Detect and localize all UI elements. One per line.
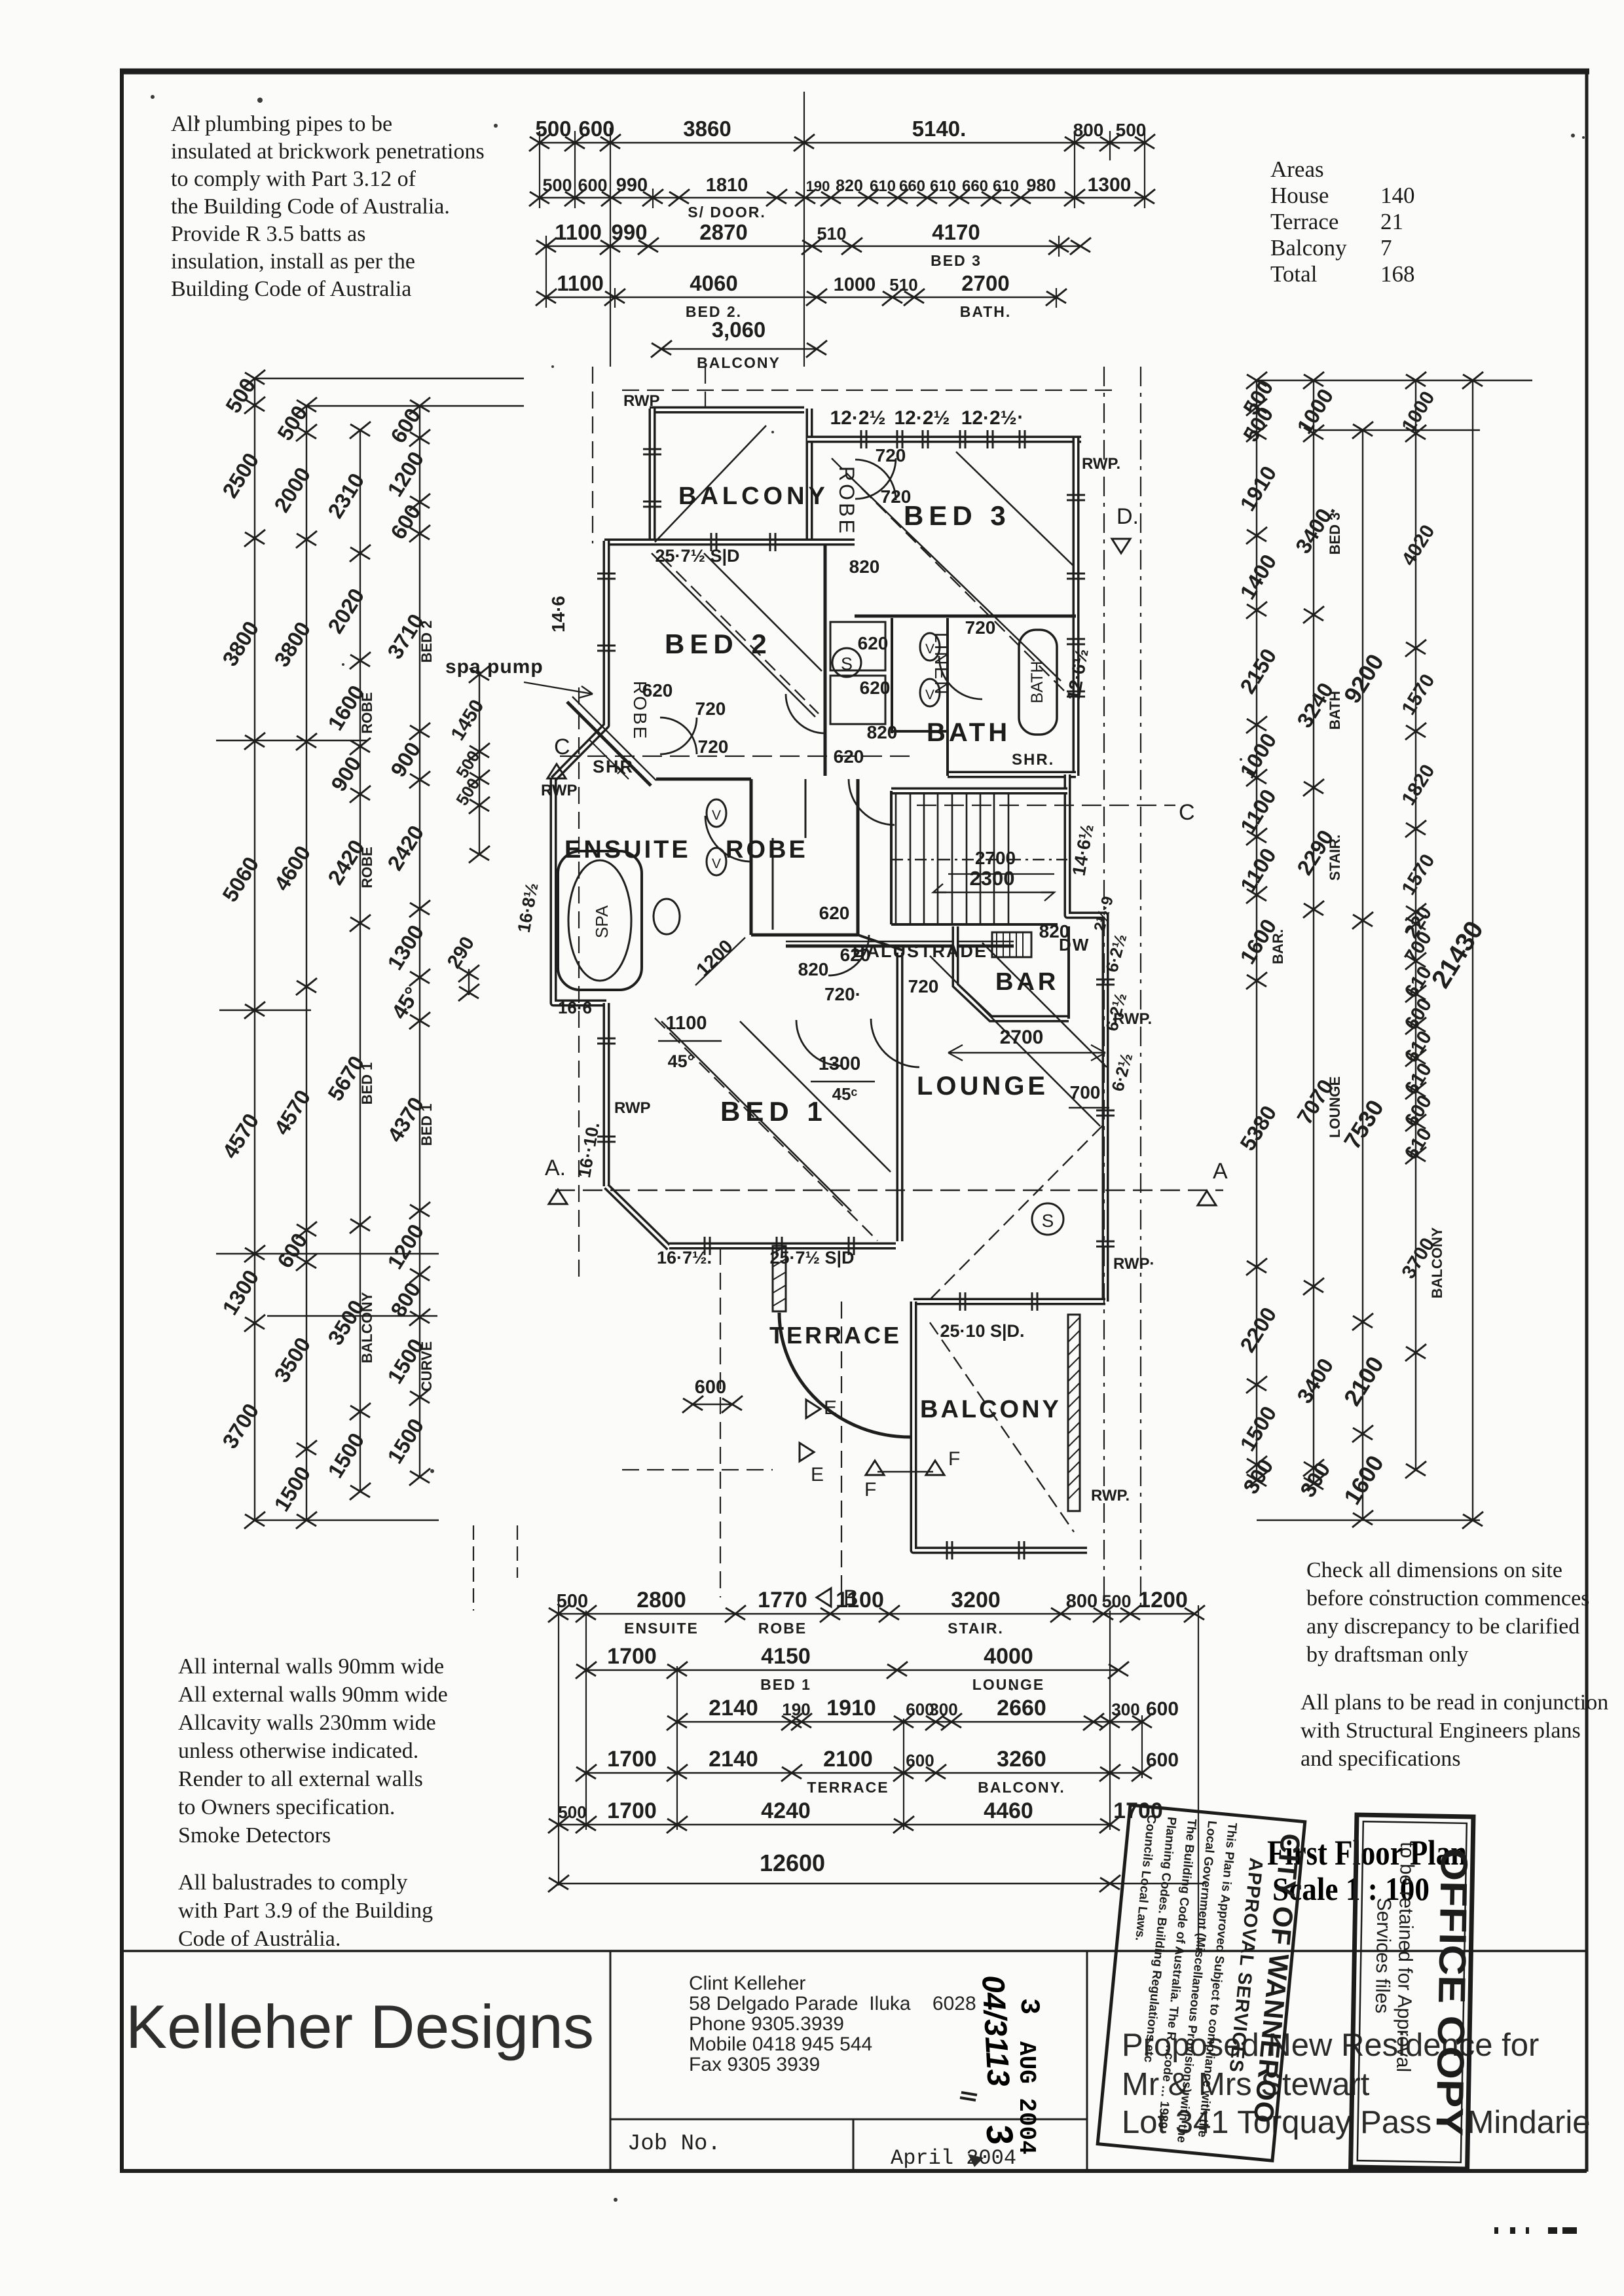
svg-text:2870: 2870 (699, 220, 747, 244)
svg-text:1100: 1100 (666, 1013, 707, 1034)
spa tub ensuite (558, 697, 656, 990)
svg-text:and specifications: and specifications (1301, 1747, 1461, 1771)
svg-text:RWP: RWP (541, 782, 578, 799)
title block (122, 1951, 1587, 2171)
svg-text:to Owners specification.: to Owners specification. (178, 1795, 395, 1819)
svg-text:820: 820 (836, 177, 863, 195)
svg-text:1000: 1000 (1397, 388, 1439, 436)
svg-text:the Building Code of Australia: the Building Code of Australia. (171, 194, 450, 219)
svg-text:BED 2: BED 2 (665, 629, 772, 659)
svg-text:F: F (948, 1448, 960, 1470)
bottom dimension grid (548, 1588, 1205, 1951)
svg-text:BALCONY: BALCONY (359, 1292, 375, 1363)
svg-text:16·6: 16·6 (558, 998, 592, 1017)
svg-text:Kelleher Designs: Kelleher Designs (126, 1992, 594, 2061)
svg-text:Fax 9305 3939: Fax 9305 3939 (689, 2054, 820, 2075)
terrace curve wall (779, 1313, 910, 1437)
svg-text:1400: 1400 (1235, 550, 1281, 604)
note: check dimensions (1301, 1558, 1608, 1771)
dashed connectors to bottom grid (473, 1525, 474, 1611)
svg-text:1300: 1300 (1088, 174, 1132, 196)
svg-text:1770: 1770 (758, 1588, 807, 1613)
svg-text:12600: 12600 (760, 1850, 825, 1876)
svg-text:510: 510 (889, 275, 917, 295)
svg-text:All internal walls 90mm wide: All internal walls 90mm wide (178, 1654, 444, 1679)
bed3 right wall (1073, 438, 1080, 776)
svg-text:Services files: Services files (1371, 1897, 1395, 2013)
svg-text:1300: 1300 (217, 1266, 263, 1319)
svg-text:500: 500 (1116, 120, 1147, 140)
svg-text:2200: 2200 (1235, 1303, 1281, 1357)
svg-text:SPA: SPA (592, 905, 612, 938)
areas table (1270, 156, 1415, 287)
svg-text:2700: 2700 (961, 271, 1009, 295)
svg-text:1500: 1500 (382, 1414, 428, 1468)
svg-text:12·6½: 12·6½ (1063, 647, 1092, 702)
svg-text:500: 500 (542, 175, 572, 195)
svg-text:620: 620 (834, 746, 864, 767)
svg-text:BED 3: BED 3 (931, 252, 982, 269)
svg-text:620: 620 (858, 633, 889, 653)
svg-text:21430: 21430 (1426, 916, 1489, 993)
svg-text:E: E (824, 1397, 837, 1419)
svg-text:4150: 4150 (761, 1644, 811, 1669)
svg-text:3860: 3860 (683, 117, 731, 141)
top grid row balcony 3060 (661, 348, 817, 350)
svg-text:Check all dimensions on site: Check all dimensions on site (1306, 1558, 1562, 1582)
svg-text:April 2004: April 2004 (891, 2146, 1016, 2170)
svg-text:5140.: 5140. (912, 117, 967, 141)
svg-text:1100: 1100 (557, 271, 604, 295)
stair top wall (891, 788, 1067, 795)
bed1 bottom wall (669, 1243, 896, 1250)
bed1 lounge divider wall (896, 953, 904, 1241)
svg-text:3500: 3500 (269, 1333, 315, 1387)
svg-text:300: 300 (1238, 1455, 1278, 1498)
svg-text:A.: A. (545, 1156, 566, 1180)
svg-text:Mobile 0418 945 544: Mobile 0418 945 544 (689, 2033, 872, 2055)
svg-text:All external walls 90mm wide: All external walls 90mm wide (178, 1683, 448, 1707)
svg-text:spa pump: spa pump (445, 656, 544, 678)
svg-text:Balcony: Balcony (1270, 235, 1347, 261)
svg-text:V: V (712, 856, 721, 871)
svg-text:720: 720 (698, 737, 729, 757)
bath bottom wall (948, 771, 1076, 778)
lounge bottom wall (913, 1298, 1105, 1305)
svg-text:BED 3: BED 3 (904, 500, 1011, 531)
svg-text:to comply with Part 3.12 of: to comply with Part 3.12 of (171, 167, 416, 191)
bed2 left wall (603, 541, 610, 687)
svg-text:Smoke Detectors: Smoke Detectors (178, 1823, 331, 1848)
right dimension chains (1235, 372, 1532, 1529)
bed2 left lower + angle to ensuite (553, 687, 606, 779)
staircase treads (891, 793, 1067, 923)
svg-text:2420: 2420 (382, 821, 428, 875)
svg-text:All plumbing pipes to be: All plumbing pipes to be (171, 112, 392, 136)
svg-text:ROBE: ROBE (758, 1620, 807, 1637)
svg-text:500: 500 (557, 1591, 588, 1612)
svg-text:16·8½: 16·8½ (514, 881, 542, 934)
svg-text:Councils Local Laws.: Councils Local Laws. (1132, 1814, 1158, 1941)
svg-text:STAIR.: STAIR. (948, 1620, 1004, 1637)
dashed roof and section lines (555, 367, 1223, 1607)
svg-text:1570: 1570 (1397, 670, 1439, 719)
stamp City of Wanneroo (1098, 1805, 1308, 2161)
svg-text:800: 800 (1073, 120, 1104, 140)
svg-text:6·2½: 6·2½ (1107, 1051, 1136, 1093)
svg-text:820: 820 (867, 722, 898, 742)
svg-text:BED 3: BED 3 (1327, 513, 1343, 555)
svg-text:3700: 3700 (217, 1399, 263, 1453)
svg-text:A: A (1213, 1159, 1228, 1184)
svg-text:4600: 4600 (269, 841, 315, 895)
svg-text:620: 620 (642, 680, 673, 701)
svg-text:600: 600 (578, 117, 614, 141)
top dimension grid (529, 92, 1155, 371)
svg-text:LOUNGE: LOUNGE (917, 1072, 1048, 1101)
svg-text:1700: 1700 (607, 1798, 657, 1823)
RWP labels (541, 392, 1155, 1504)
bar dumbwaiter grill (992, 932, 1031, 957)
note: wall specifications (178, 1654, 448, 1951)
svg-text:3260: 3260 (997, 1747, 1046, 1772)
svg-text:3800: 3800 (269, 617, 315, 671)
svg-text:F: F (864, 1479, 876, 1501)
svg-text:4570: 4570 (269, 1085, 315, 1139)
svg-text:980: 980 (1026, 175, 1056, 195)
svg-text:SHR: SHR (593, 757, 634, 776)
svg-text:Areas: Areas (1270, 156, 1324, 182)
svg-text:ROBE: ROBE (726, 836, 808, 864)
svg-text:Total: Total (1270, 261, 1318, 287)
svg-text:5380: 5380 (1235, 1101, 1281, 1155)
svg-text:RWP: RWP (623, 392, 660, 410)
svg-text:2100: 2100 (1338, 1352, 1389, 1411)
svg-text:500: 500 (1101, 1592, 1131, 1611)
svg-text:BATH.: BATH. (960, 303, 1012, 320)
svg-text:2310: 2310 (323, 469, 369, 522)
svg-text:LOUNGE: LOUNGE (972, 1676, 1044, 1693)
svg-text:BATH: BATH (1327, 691, 1343, 729)
svg-text:BED 1: BED 1 (760, 1676, 811, 1693)
svg-text:SHR.: SHR. (1012, 751, 1054, 769)
svg-text:1500: 1500 (269, 1462, 315, 1516)
svg-text:168: 168 (1380, 261, 1415, 287)
svg-text:S/ DOOR.: S/ DOOR. (688, 204, 766, 221)
svg-text:510: 510 (817, 224, 846, 244)
svg-text:Provide R 3.5 batts as: Provide R 3.5 batts as (171, 222, 365, 246)
shower angled wall ensuite (567, 702, 651, 786)
svg-text:25·10 S|D.: 25·10 S|D. (940, 1321, 1024, 1341)
svg-text:25·7½ S|D: 25·7½ S|D (769, 1248, 854, 1267)
ensuite left wall (553, 779, 606, 1003)
svg-text:2150: 2150 (1235, 644, 1281, 698)
window tick pairs on walls (597, 430, 1115, 1559)
svg-text:600: 600 (906, 1751, 934, 1770)
misc small marks bottom right (1494, 2227, 1577, 2234)
terrace pier hatched (773, 1246, 1080, 1511)
svg-text:Job No.: Job No. (627, 2132, 721, 2157)
svg-text:OFFICE COPY: OFFICE COPY (1428, 1848, 1475, 2136)
svg-text:BALCONY: BALCONY (1429, 1227, 1445, 1298)
svg-text:B: B (843, 1586, 858, 1611)
svg-text:04/3113: 04/3113 (975, 1975, 1016, 2088)
svg-text:BED 1: BED 1 (720, 1096, 828, 1127)
svg-text:1700: 1700 (607, 1747, 657, 1772)
svg-text:RWP.: RWP. (1113, 1010, 1152, 1028)
svg-text:insulation, install as per the: insulation, install as per the (171, 249, 415, 274)
left small chain 1450 (479, 674, 480, 854)
svg-text:4020: 4020 (1397, 521, 1439, 570)
svg-text:720: 720 (695, 699, 726, 719)
svg-text:Terrace: Terrace (1270, 209, 1338, 234)
lounge right wall jog (1067, 774, 1105, 1302)
svg-text:2020: 2020 (323, 584, 369, 638)
bottom 12600 overall (559, 1883, 1205, 1885)
svg-text:12·2½‧: 12·2½‧ (961, 407, 1024, 429)
bath tub (1019, 630, 1057, 735)
svg-text:RWP.: RWP. (1091, 1487, 1130, 1504)
svg-text:3400: 3400 (1292, 1354, 1338, 1408)
svg-text:1100: 1100 (1236, 844, 1281, 896)
svg-text:2700: 2700 (1000, 1027, 1044, 1048)
svg-text:1910: 1910 (1235, 462, 1281, 515)
svg-text:1810: 1810 (706, 175, 748, 196)
stamp Office Copy (1351, 1815, 1476, 2169)
svg-text:720·: 720· (824, 984, 861, 1004)
svg-text:620: 620 (840, 945, 871, 965)
svg-text:Lot 341 Torquay Pass Mindar: Lot 341 Torquay Pass Mindarie (1122, 2105, 1590, 2140)
svg-text:All plans to be read in conjun: All plans to be read in conjunction (1301, 1690, 1608, 1715)
svg-text:2140: 2140 (709, 1696, 758, 1721)
svg-text:BED 2: BED 2 (418, 621, 435, 663)
roof diagonals in rooms (652, 426, 1107, 1532)
svg-text:Building Code of Australia: Building Code of Australia (171, 277, 411, 301)
svg-text:3800: 3800 (217, 617, 263, 670)
svg-text:14·6: 14·6 (548, 596, 568, 632)
svg-text:TERRACE: TERRACE (807, 1779, 889, 1796)
svg-text:990: 990 (611, 220, 647, 244)
svg-text:600: 600 (1146, 1749, 1179, 1771)
linen vents (654, 633, 1063, 1235)
svg-text:4570: 4570 (217, 1109, 263, 1163)
svg-text:ROBE: ROBE (359, 847, 375, 888)
svg-text:BATH: BATH (1028, 661, 1046, 704)
svg-text:ROBE: ROBE (359, 692, 375, 734)
balcony bottom left wall (913, 1302, 1087, 1550)
svg-text:58 Delgado Parade Iluka 60: 58 Delgado Parade Iluka 6028 (689, 1993, 976, 2014)
svg-text:BALCONY.: BALCONY. (978, 1779, 1065, 1796)
svg-text:300: 300 (1111, 1700, 1139, 1719)
svg-text:C: C (554, 735, 570, 759)
balcony top-left walls (650, 407, 804, 414)
svg-text:990: 990 (616, 175, 648, 196)
svg-text:with Part 3.9 of the Building: with Part 3.9 of the Building (178, 1899, 433, 1923)
svg-text:insulated at brickwork penetra: insulated at brickwork penetrations (171, 139, 485, 164)
project description (1122, 2028, 1590, 2140)
svg-text:16··10.: 16··10. (574, 1121, 603, 1179)
svg-text:25·7½ S|D: 25·7½ S|D (655, 546, 739, 566)
svg-text:500: 500 (535, 117, 571, 141)
svg-text:2500: 2500 (217, 448, 263, 502)
wall under balcony 25.7 S/D (604, 539, 855, 546)
room labels (445, 466, 1090, 1423)
svg-text:190: 190 (806, 178, 830, 194)
svg-text:BALCONY: BALCONY (697, 354, 781, 371)
svg-text:290: 290 (443, 933, 479, 972)
svg-text:4000: 4000 (984, 1644, 1033, 1669)
svg-text:LOUNGE: LOUNGE (1327, 1076, 1343, 1138)
note: plumbing insulation (171, 112, 485, 301)
interior walls (656, 543, 1076, 951)
svg-text:190: 190 (782, 1700, 810, 1719)
svg-text:500: 500 (558, 1802, 586, 1822)
svg-text:1200: 1200 (1138, 1588, 1188, 1613)
svg-text:12·2½: 12·2½ (894, 407, 950, 429)
svg-text:3200: 3200 (951, 1588, 1001, 1613)
svg-text:820: 820 (798, 959, 829, 979)
section markers (545, 504, 1228, 1611)
svg-text:CURVE: CURVE (418, 1341, 435, 1392)
svg-text:4460: 4460 (984, 1798, 1033, 1823)
svg-text:1200: 1200 (382, 447, 428, 501)
svg-text:820: 820 (849, 556, 880, 577)
svg-text:D.: D. (1116, 504, 1139, 529)
svg-text:1570: 1570 (1397, 850, 1439, 899)
svg-text:21: 21 (1380, 209, 1403, 234)
ensuite vents and wc (707, 799, 726, 827)
svg-text:140: 140 (1380, 183, 1415, 208)
svg-text:5060: 5060 (217, 852, 263, 906)
svg-text:LINEN: LINEN (931, 632, 951, 696)
plan dimension labels (514, 407, 1137, 1413)
svg-text:720: 720 (876, 445, 906, 465)
bed1 left wall (603, 1003, 610, 1186)
svg-text:2700: 2700 (975, 848, 1016, 868)
svg-text:V: V (712, 808, 721, 823)
svg-text:4170: 4170 (932, 220, 980, 244)
svg-text:660: 660 (962, 177, 988, 195)
svg-text:1450: 1450 (447, 696, 488, 744)
svg-text:BED 1: BED 1 (359, 1063, 375, 1105)
svg-text:600: 600 (695, 1377, 726, 1398)
svg-text:800: 800 (1066, 1591, 1098, 1612)
svg-text:610: 610 (930, 177, 956, 195)
svg-text:RWP: RWP (614, 1099, 651, 1117)
svg-text:Clint Kelleher: Clint Kelleher (689, 1973, 805, 1994)
svg-text:600: 600 (578, 175, 607, 195)
svg-text:2800: 2800 (637, 1588, 686, 1613)
svg-text:2000: 2000 (269, 463, 315, 517)
svg-text:E: E (811, 1464, 824, 1485)
svg-text:2½·9: 2½·9 (1091, 894, 1117, 934)
svg-text:1500: 1500 (1235, 1402, 1281, 1455)
left dimension chains (216, 370, 524, 1529)
svg-text:RWP·: RWP· (1113, 1255, 1155, 1273)
svg-text:7: 7 (1380, 235, 1392, 261)
svg-text:C: C (1179, 800, 1195, 825)
stair dim 2300 (933, 867, 1054, 901)
svg-text:7530: 7530 (1338, 1095, 1389, 1154)
svg-text:2300: 2300 (970, 867, 1015, 890)
svg-text:12·2½: 12·2½ (830, 407, 885, 429)
svg-text:to be retained for Approval: to be retained for Approval (1392, 1842, 1418, 2072)
svg-text:BED 1: BED 1 (418, 1104, 435, 1146)
svg-text:1200: 1200 (693, 936, 737, 981)
svg-text:Phone 9305.3939: Phone 9305.3939 (689, 2013, 844, 2035)
svg-text:45°: 45° (386, 983, 424, 1023)
svg-text:BALCONY: BALCONY (920, 1396, 1061, 1423)
svg-text:1100: 1100 (1236, 785, 1281, 837)
svg-text:2660: 2660 (997, 1696, 1046, 1721)
svg-text:720: 720 (908, 976, 939, 996)
svg-text:ENSUITE: ENSUITE (624, 1620, 699, 1637)
svg-text:720: 720 (881, 486, 912, 507)
svg-text:1500: 1500 (323, 1429, 369, 1482)
svg-text:700: 700 (1070, 1082, 1101, 1102)
svg-text:BAR.: BAR. (1270, 929, 1286, 964)
svg-text:BAR: BAR (995, 968, 1059, 996)
svg-text:All balustrades to comply: All balustrades to comply (178, 1870, 407, 1895)
svg-text:1820: 1820 (1397, 761, 1439, 809)
svg-text:Code of Australia.: Code of Australia. (178, 1927, 341, 1951)
balcony right pier hatched (1068, 1315, 1080, 1511)
svg-text:1000: 1000 (1235, 729, 1281, 782)
svg-text:820: 820 (1039, 921, 1070, 941)
right overall 21430 chain (1472, 380, 1473, 1520)
svg-text:600: 600 (1146, 1698, 1179, 1720)
svg-text:ENSUITE: ENSUITE (564, 836, 691, 864)
svg-text:S: S (1042, 1211, 1054, 1231)
address block (689, 1973, 976, 2075)
svg-text:1600: 1600 (1338, 1451, 1389, 1510)
svg-text:TERRACE: TERRACE (769, 1322, 902, 1349)
svg-text:Allcavity walls 230mm wide: Allcavity walls 230mm wide (178, 1711, 436, 1735)
svg-text:S: S (841, 654, 853, 674)
svg-text:2140: 2140 (709, 1747, 758, 1772)
S smoke detectors (832, 648, 861, 677)
svg-text:1700: 1700 (607, 1644, 657, 1669)
bed1 corner 45 (606, 1186, 669, 1248)
svg-text:House: House (1270, 183, 1329, 208)
svg-text:BATH: BATH (927, 718, 1010, 747)
svg-text:STAIR.: STAIR. (1327, 835, 1343, 881)
robe vanity cupboards (830, 622, 885, 670)
svg-text:BALCONY: BALCONY (678, 483, 829, 510)
svg-text:45ᶜ: 45ᶜ (832, 1084, 858, 1104)
svg-text:660: 660 (899, 177, 925, 195)
svg-text:620: 620 (819, 903, 850, 923)
svg-text:any discrepancy to be clarifie: any discrepancy to be clarified (1306, 1614, 1579, 1639)
svg-text:BALUSTRADE: BALUSTRADE (853, 941, 987, 961)
svg-text:3: 3 (1013, 1998, 1044, 2014)
svg-text:1200: 1200 (382, 1220, 428, 1273)
bed3 top wall (807, 436, 1081, 443)
svg-text:by draftsman only: by draftsman only (1306, 1643, 1468, 1667)
svg-text:620: 620 (860, 678, 891, 698)
svg-text:9200: 9200 (1338, 649, 1389, 708)
svg-text:3,060: 3,060 (712, 318, 766, 342)
svg-text:unless otherwise indicated.: unless otherwise indicated. (178, 1739, 418, 1763)
svg-text:Render to all external walls: Render to all external walls (178, 1767, 423, 1791)
svg-text:1300: 1300 (819, 1053, 861, 1074)
svg-text:16·7½.: 16·7½. (657, 1248, 712, 1267)
svg-text:610: 610 (870, 177, 896, 195)
svg-text:1100: 1100 (555, 220, 602, 244)
svg-text:RWP.: RWP. (1082, 455, 1120, 473)
svg-text:1000: 1000 (834, 274, 876, 295)
svg-text:1910: 1910 (826, 1696, 876, 1721)
